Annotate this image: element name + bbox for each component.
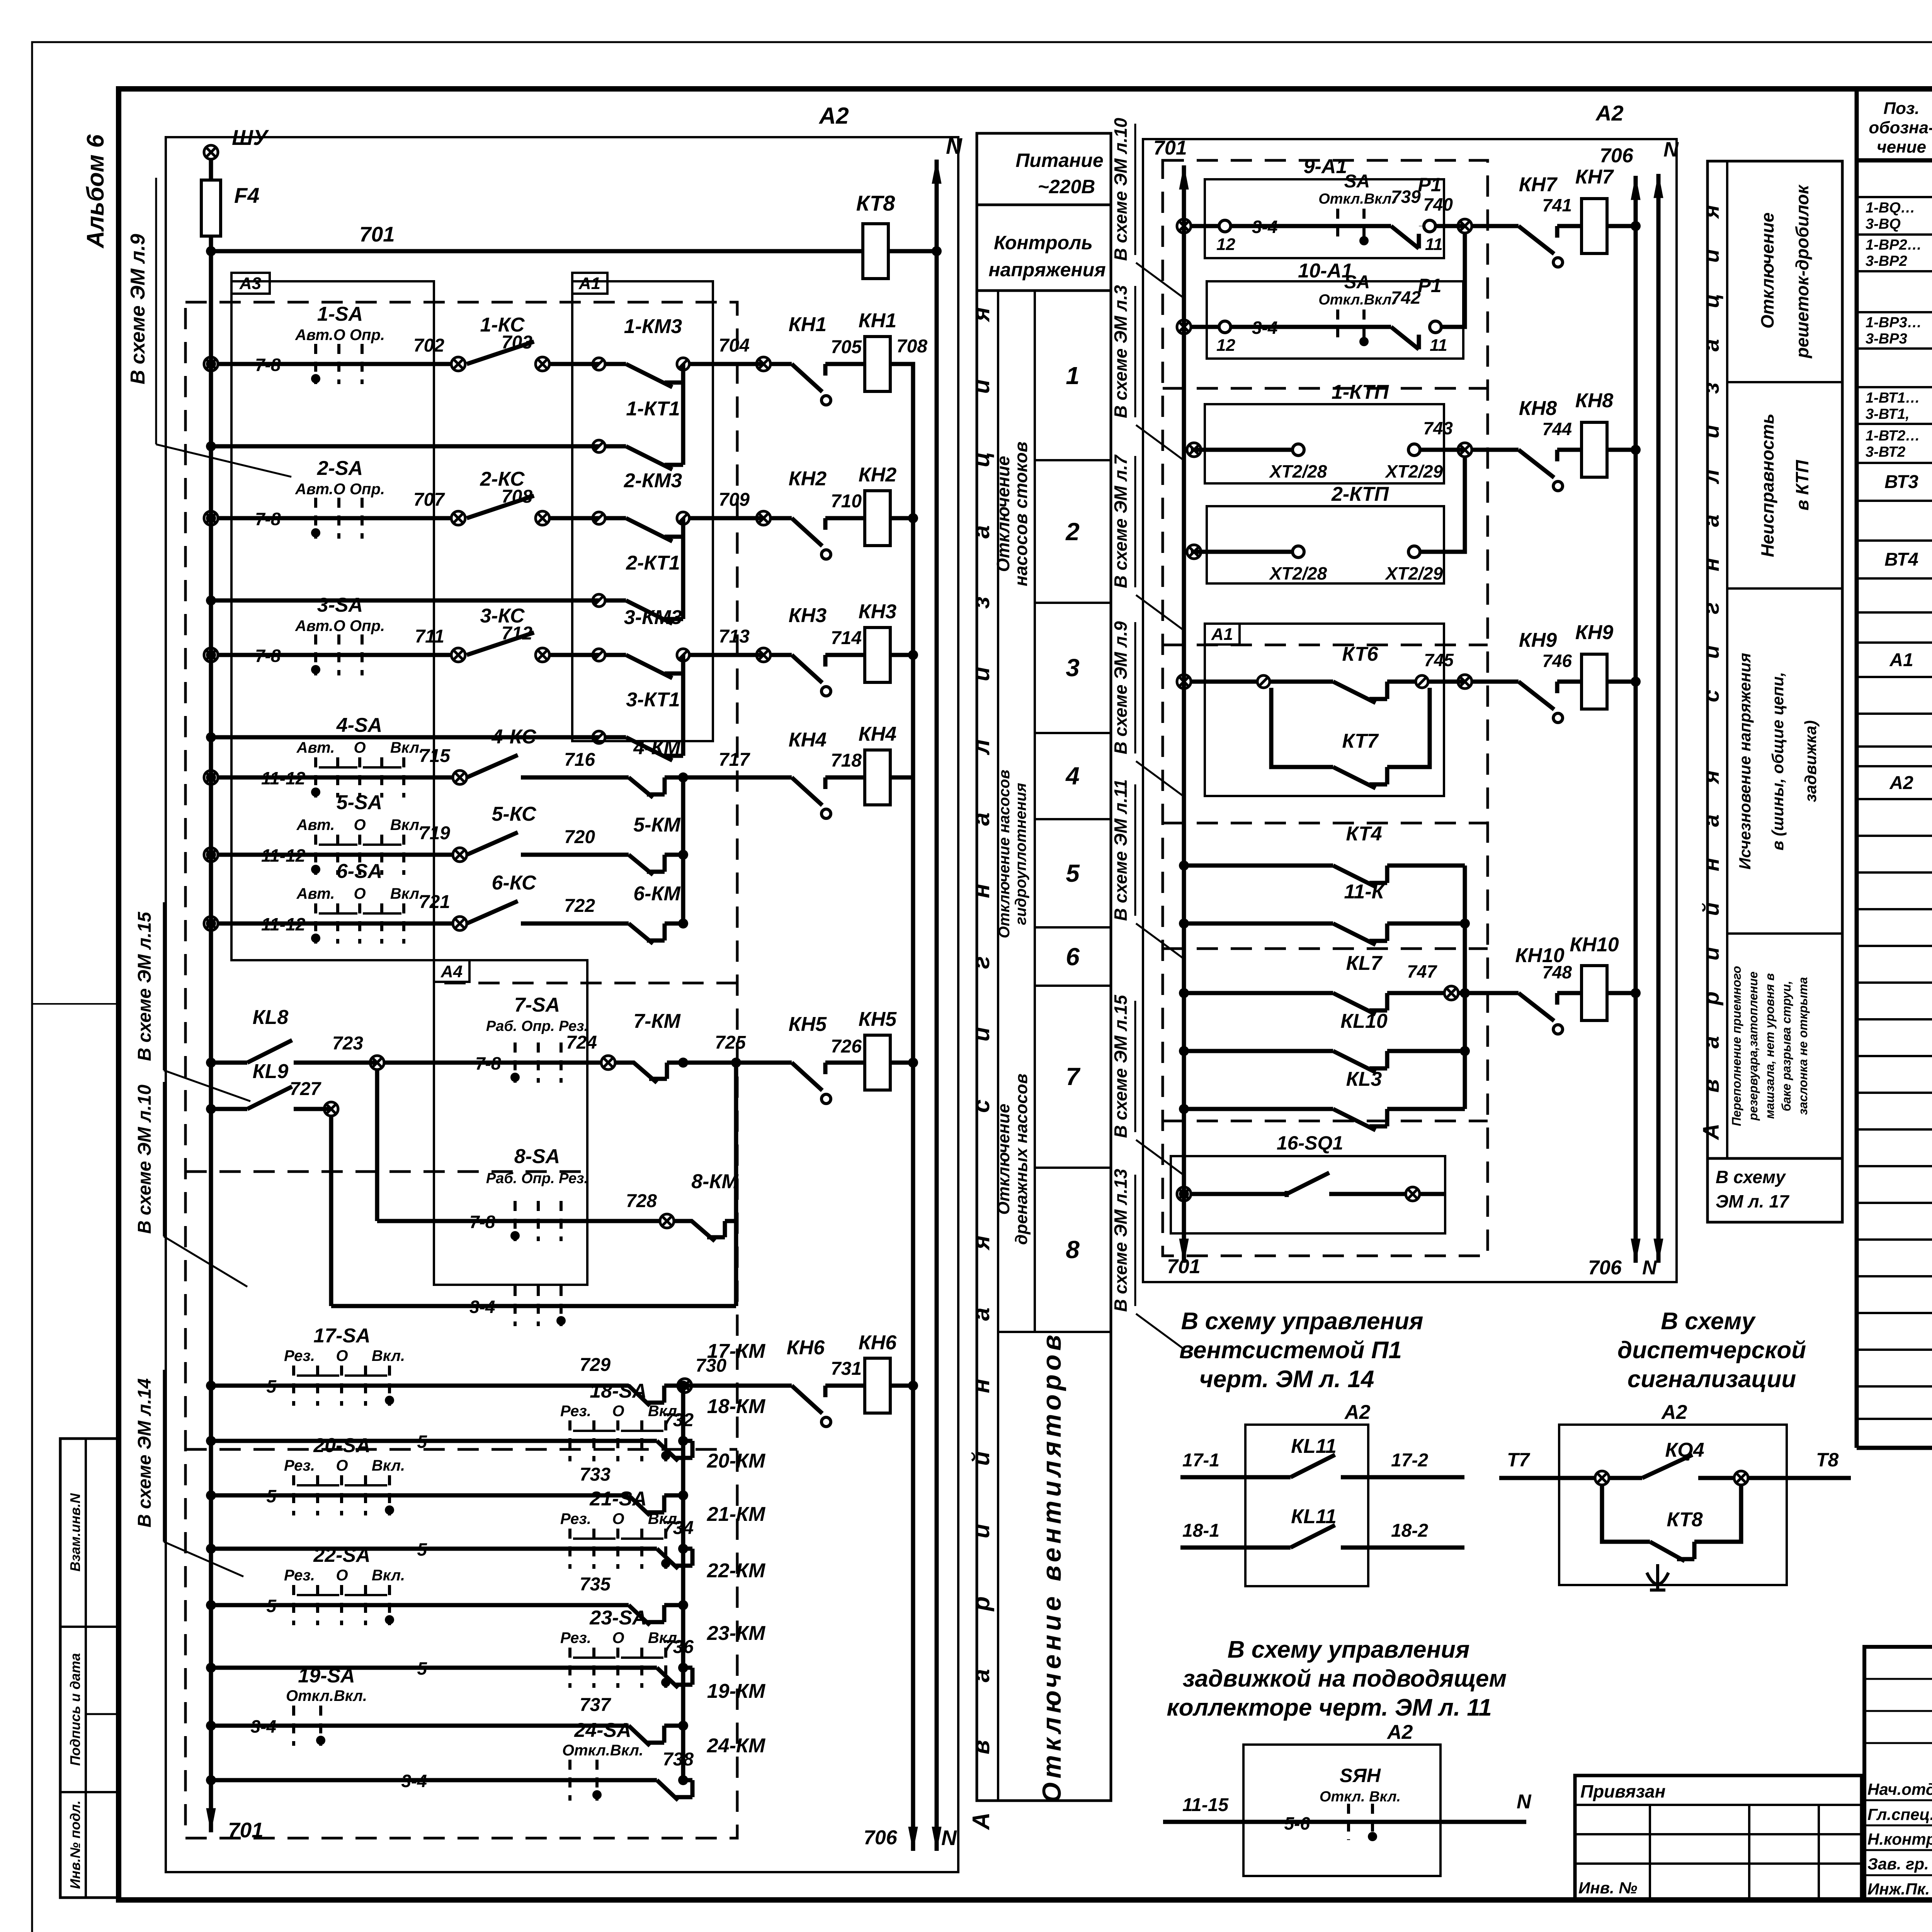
- svg-text:Отключение: Отключение: [994, 1104, 1013, 1214]
- node circle-slash left: [593, 358, 605, 370]
- svg-text:725: 725: [715, 1032, 746, 1053]
- svg-text:КН5: КН5: [789, 1013, 827, 1036]
- svg-text:В схеме ЭМ л.13: В схеме ЭМ л.13: [1111, 1169, 1131, 1312]
- terminal XT2/29 row2: [1408, 546, 1420, 558]
- svg-text:КН6: КН6: [859, 1332, 897, 1354]
- node circle-slash KT1: [593, 594, 605, 607]
- wire row 3 segment 1: [218, 653, 451, 657]
- link 8-KM up to KH5 row: [725, 1219, 736, 1223]
- wire row 5 segment 1: [218, 853, 453, 857]
- svg-text:5-6: 5-6: [1284, 1813, 1310, 1833]
- node T7 side: [1595, 1471, 1609, 1485]
- svg-text:2-SA: 2-SA: [317, 457, 363, 480]
- row KL8: junction on bus: [206, 1058, 216, 1068]
- svg-text:4-SA: 4-SA: [336, 714, 382, 736]
- wire 2-KTP up to 743: [1420, 456, 1465, 552]
- svg-text:745: 745: [1424, 650, 1454, 670]
- svg-text:23-SA: 23-SA: [589, 1607, 646, 1629]
- svg-text:743: 743: [1423, 418, 1453, 438]
- svg-text:3-КТ1: 3-КТ1: [626, 689, 680, 711]
- svg-text:Н.контр.: Н.контр.: [1867, 1830, 1932, 1848]
- wire row7 to KH5: [683, 1061, 792, 1065]
- wire relay KH6 to 706: [890, 1384, 913, 1388]
- parallel branch 2-KT1 wire: [206, 595, 216, 605]
- wire 701 horizontal top: [211, 249, 863, 253]
- svg-text:КН5: КН5: [859, 1008, 897, 1031]
- dashed cabinet A2 enclosure: [185, 302, 737, 1838]
- svg-text:724: 724: [566, 1032, 597, 1053]
- svg-text:КН8: КН8: [1575, 389, 1614, 412]
- svg-text:В схему управления: В схему управления: [1181, 1308, 1423, 1335]
- svg-text:734: 734: [663, 1518, 694, 1538]
- svg-text:Рез.: Рез.: [560, 1510, 591, 1527]
- svg-text:КН3: КН3: [789, 604, 827, 627]
- svg-text:706: 706: [1600, 145, 1634, 167]
- wire row 18: [211, 1439, 657, 1443]
- left stamp column box: [60, 1439, 117, 1898]
- svg-text:744: 744: [1542, 419, 1572, 439]
- svg-text:КН10: КН10: [1570, 934, 1619, 956]
- svg-text:гидроуплотнения: гидроуплотнения: [1012, 783, 1029, 925]
- svg-text:Авт.: Авт.: [296, 816, 335, 833]
- svg-text:резервуара,затопление: резервуара,затопление: [1746, 971, 1760, 1121]
- row 10-A1: node on bus: [1177, 320, 1191, 334]
- svg-text:23-КМ: 23-КМ: [707, 1622, 766, 1645]
- svg-text:В схеме ЭМ л.15: В схеме ЭМ л.15: [1111, 995, 1131, 1138]
- node on SQ1 row right: [1406, 1187, 1420, 1201]
- svg-text:Вкл.: Вкл.: [372, 1567, 405, 1584]
- parts table outer left edge: [1855, 89, 1859, 1448]
- svg-text:703: 703: [502, 332, 532, 353]
- wire 3-4 to link column: [331, 1304, 736, 1308]
- svg-text:5: 5: [266, 1596, 277, 1616]
- wire KH7 to 706: [1607, 224, 1636, 228]
- box V skhemu EM l.17: [1708, 1158, 1842, 1222]
- svg-text:Р1: Р1: [1418, 275, 1441, 296]
- svg-text:ВТ3: ВТ3: [1884, 472, 1918, 492]
- wire row 19: [211, 1724, 629, 1728]
- row KT4: [1179, 861, 1189, 871]
- svg-text:КТ8: КТ8: [856, 191, 895, 215]
- svg-text:Откл.Вкл.: Откл.Вкл.: [562, 1742, 643, 1759]
- svg-text:719: 719: [419, 823, 450, 844]
- svg-text:КН9: КН9: [1575, 621, 1614, 644]
- svg-text:Откл. Вкл.: Откл. Вкл.: [1320, 1789, 1401, 1805]
- terminal XT2/29: [1408, 444, 1420, 456]
- node on SQ1 row left: [1177, 1187, 1191, 1201]
- row 4 wire to relay KH4: [683, 776, 792, 780]
- svg-text:746: 746: [1542, 651, 1572, 671]
- svg-text:насосов стоков: насосов стоков: [1011, 442, 1031, 586]
- svg-text:Откл.Вкл.: Откл.Вкл.: [1318, 191, 1396, 207]
- svg-text:Инв. №: Инв. №: [1578, 1879, 1637, 1897]
- leader line: [1136, 425, 1183, 460]
- terminal 12: [1219, 220, 1231, 232]
- svg-text:КН7: КН7: [1575, 166, 1614, 188]
- collector column rows 17-24: [681, 1386, 685, 1780]
- wire 11-15: [1163, 1820, 1391, 1824]
- node SHU lamp: [204, 145, 218, 159]
- relay KH1 coil: [865, 337, 890, 391]
- svg-text:О: О: [336, 1457, 348, 1474]
- svg-text:Авт.: Авт.: [296, 885, 335, 902]
- row KL10: [1179, 1046, 1189, 1056]
- svg-text:8-SA: 8-SA: [514, 1145, 560, 1168]
- svg-text:КТ7: КТ7: [1342, 730, 1379, 752]
- node circle-slash KT6 left: [1257, 675, 1270, 688]
- wire row 2 segment 1: [218, 516, 451, 520]
- relay KH9 coil: [1582, 654, 1607, 709]
- svg-text:Подпись и дата: Подпись и дата: [67, 1653, 83, 1766]
- svg-text:О: О: [354, 885, 366, 902]
- svg-text:24-КМ: 24-КМ: [707, 1735, 766, 1757]
- svg-text:5: 5: [417, 1539, 427, 1560]
- svg-text:В схеме ЭМ л.11: В схеме ЭМ л.11: [1111, 779, 1131, 921]
- svg-text:5: 5: [266, 1376, 277, 1396]
- wire 722: [521, 922, 629, 926]
- svg-text:КН1: КН1: [859, 310, 896, 332]
- time-delay symbol KT8: [1647, 1564, 1668, 1590]
- svg-text:742: 742: [1391, 287, 1421, 308]
- wire SQ1 right up: [1419, 1192, 1445, 1196]
- svg-text:В схеме ЭМ л.15: В схеме ЭМ л.15: [134, 912, 155, 1061]
- svg-text:КL9: КL9: [253, 1060, 289, 1083]
- svg-text:N: N: [1517, 1791, 1532, 1813]
- svg-text:22-КМ: 22-КМ: [707, 1560, 766, 1582]
- svg-text:в (шины, общие цепи,: в (шины, общие цепи,: [1769, 672, 1787, 850]
- svg-text:1-ВТ1…: 1-ВТ1…: [1866, 390, 1920, 406]
- svg-text:733: 733: [580, 1464, 611, 1485]
- svg-text:Поз.: Поз.: [1883, 99, 1919, 118]
- svg-text:КL3: КL3: [1346, 1068, 1382, 1090]
- svg-text:Откл.Вкл.: Откл.Вкл.: [286, 1687, 367, 1704]
- svg-text:Отключение: Отключение: [993, 456, 1013, 572]
- svg-text:~220В: ~220В: [1038, 176, 1095, 197]
- svg-text:задвижкой на подводящем: задвижкой на подводящем: [1183, 1665, 1507, 1692]
- svg-text:черт. ЭМ л. 14: черт. ЭМ л. 14: [1199, 1366, 1374, 1393]
- svg-text:А2: А2: [1889, 773, 1913, 793]
- svg-text:3-SA: 3-SA: [317, 594, 363, 616]
- svg-text:7: 7: [1066, 1063, 1081, 1090]
- svg-text:Альбом 6: Альбом 6: [82, 134, 109, 249]
- svg-text:5-SA: 5-SA: [337, 791, 382, 814]
- junction collector row 19: [678, 1721, 688, 1731]
- leader line: [1136, 263, 1183, 298]
- cell Pitanie 220V: [977, 204, 1111, 206]
- svg-text:2-КТП: 2-КТП: [1331, 483, 1389, 505]
- svg-text:711: 711: [415, 626, 444, 647]
- svg-text:ЭМ л. 17: ЭМ л. 17: [1716, 1191, 1790, 1211]
- svg-text:706: 706: [1588, 1257, 1622, 1279]
- svg-text:коллекторе черт. ЭМ л. 11: коллекторе черт. ЭМ л. 11: [1167, 1694, 1492, 1721]
- svg-text:18-2: 18-2: [1391, 1520, 1428, 1541]
- svg-text:В схему управления: В схему управления: [1228, 1636, 1470, 1663]
- row KL3: [1179, 1104, 1189, 1114]
- svg-text:Рез.: Рез.: [284, 1567, 315, 1584]
- wire out of 9-A1 to node 740: [1435, 224, 1465, 228]
- svg-text:747: 747: [1407, 961, 1437, 981]
- wire XT2/29 out to 743: [1420, 448, 1465, 452]
- svg-text:1-КТ1: 1-КТ1: [626, 398, 680, 420]
- svg-text:Отключение насосов: Отключение насосов: [996, 770, 1013, 938]
- relay KH6 coil: [865, 1358, 890, 1413]
- bus N vertical right of left block: [935, 160, 939, 1851]
- svg-text:SЯН: SЯН: [1340, 1765, 1381, 1786]
- fold mark left margin: [32, 1003, 119, 1005]
- contact SQ1 limit switch: [1287, 1173, 1329, 1197]
- svg-text:диспетчерской: диспетчерской: [1617, 1337, 1806, 1364]
- svg-text:КН1: КН1: [789, 313, 827, 336]
- svg-text:11: 11: [1430, 336, 1447, 355]
- svg-text:718: 718: [831, 750, 862, 771]
- svg-text:F4: F4: [234, 183, 259, 207]
- svg-text:3-4: 3-4: [251, 1716, 276, 1736]
- svg-text:Рез.: Рез.: [284, 1457, 315, 1474]
- junction on collector column: [678, 918, 688, 929]
- wire relay KH4 to 706: [890, 776, 913, 780]
- svg-text:17-SA: 17-SA: [313, 1325, 370, 1347]
- wire KH10 to 706: [1607, 991, 1636, 995]
- svg-text:вентсистемой П1: вентсистемой П1: [1179, 1337, 1402, 1364]
- wire to XT2/28 row2: [1191, 550, 1293, 554]
- svg-text:Вкл.: Вкл.: [390, 739, 423, 756]
- vertical link 723 to 7-8 row of 8-SA: [375, 1069, 379, 1221]
- svg-text:11-К: 11-К: [1344, 881, 1385, 903]
- wire T8: [1747, 1476, 1851, 1480]
- svg-text:Привязан: Привязан: [1580, 1781, 1665, 1801]
- svg-text:КН8: КН8: [1519, 397, 1557, 420]
- junction collector row 20: [678, 1490, 688, 1500]
- svg-text:N: N: [1642, 1257, 1657, 1279]
- svg-text:715: 715: [419, 746, 451, 766]
- bus 706 middle vertical: [1634, 176, 1638, 1263]
- svg-text:Раб. Опр. Рез.: Раб. Опр. Рез.: [486, 1170, 588, 1187]
- terminal 11: [1424, 220, 1435, 232]
- svg-text:1-SA: 1-SA: [317, 303, 363, 325]
- section divider 3: [1727, 932, 1842, 935]
- bus 706 vertical collector: [890, 364, 913, 1851]
- right legend column box: [1708, 161, 1842, 1158]
- svg-text:5: 5: [417, 1432, 427, 1452]
- svg-text:ШУ: ШУ: [232, 125, 269, 150]
- svg-text:О: О: [612, 1629, 624, 1646]
- wire to KT6: [1191, 680, 1257, 684]
- svg-text:710: 710: [831, 491, 862, 512]
- svg-text:701: 701: [359, 222, 395, 246]
- svg-text:Нач.отд: Нач.отд: [1867, 1780, 1932, 1798]
- svg-text:726: 726: [831, 1036, 862, 1057]
- wire into box 9-A1: [1191, 224, 1219, 228]
- svg-text:Взам.инв.N: Взам.инв.N: [67, 1493, 83, 1572]
- terminal 11 row 10-A1: [1430, 321, 1441, 333]
- svg-text:3-ВТ1,: 3-ВТ1,: [1866, 406, 1910, 422]
- svg-text:КН2: КН2: [789, 468, 827, 490]
- node 728: [377, 1219, 660, 1223]
- svg-text:716: 716: [564, 750, 595, 770]
- wire row 2 segment 3: [689, 516, 764, 520]
- svg-text:Отключение вентиляторов: Отключение вентиляторов: [1037, 1331, 1066, 1803]
- leader line: [1136, 1314, 1183, 1349]
- svg-text:11: 11: [1425, 235, 1443, 254]
- svg-text:5: 5: [1066, 859, 1080, 887]
- wire 18-1: [1180, 1546, 1291, 1550]
- svg-text:9-А1: 9-А1: [1304, 155, 1347, 178]
- wire 17-1: [1180, 1475, 1291, 1480]
- svg-text:А2: А2: [1595, 101, 1624, 125]
- svg-text:1-КТП: 1-КТП: [1332, 381, 1389, 403]
- svg-text:ХТ2/28: ХТ2/28: [1269, 461, 1327, 481]
- svg-text:N: N: [941, 1826, 957, 1850]
- svg-text:А2: А2: [1661, 1401, 1687, 1423]
- relay KH3 coil: [865, 628, 890, 682]
- wire relay KH5 to 706: [890, 1061, 913, 1065]
- row 3: node on bus: [204, 648, 218, 662]
- relay KH5 coil: [865, 1035, 890, 1090]
- wire row 20: [211, 1493, 629, 1498]
- svg-text:704: 704: [719, 335, 750, 356]
- svg-text:6-КМ: 6-КМ: [633, 883, 681, 905]
- svg-text:708: 708: [896, 336, 927, 357]
- row 21: junction on bus: [206, 1544, 216, 1554]
- svg-text:КН9: КН9: [1519, 629, 1557, 651]
- node circle-slash right: [677, 649, 689, 661]
- box A3 outline: [231, 281, 434, 960]
- svg-text:ХТ2/29: ХТ2/29: [1384, 461, 1443, 481]
- svg-text:17-2: 17-2: [1391, 1450, 1428, 1471]
- svg-text:5: 5: [417, 1658, 427, 1679]
- svg-text:N: N: [1663, 138, 1679, 161]
- leader line: [1136, 923, 1183, 958]
- svg-text:727: 727: [290, 1079, 321, 1099]
- wire KT1 branch up to node: [681, 370, 685, 446]
- svg-text:721: 721: [419, 892, 450, 912]
- svg-text:18-SA: 18-SA: [590, 1380, 646, 1402]
- svg-text:Авт.О Опр.: Авт.О Опр.: [295, 327, 385, 344]
- svg-text:КL8: КL8: [253, 1006, 289, 1029]
- svg-text:Т8: Т8: [1816, 1449, 1839, 1471]
- svg-text:заслонка не открыта: заслонка не открыта: [1796, 977, 1810, 1115]
- svg-text:обозна-: обозна-: [1869, 118, 1932, 137]
- svg-text:707: 707: [413, 490, 445, 510]
- svg-text:7-8: 7-8: [475, 1053, 501, 1073]
- wire row 23: [211, 1666, 657, 1670]
- wire 720: [521, 853, 629, 857]
- svg-text:2-КТ1: 2-КТ1: [626, 552, 680, 574]
- svg-text:В схеме ЭМ л.9: В схеме ЭМ л.9: [127, 234, 149, 384]
- svg-text:Рез.: Рез.: [560, 1403, 591, 1420]
- wire T7: [1499, 1476, 1596, 1480]
- relay KH2 coil: [865, 491, 890, 546]
- svg-text:1: 1: [1066, 362, 1080, 389]
- parallel branch 3-KT1 wire: [206, 732, 216, 742]
- node circle-slash KT1: [593, 440, 605, 452]
- dashed enclosure middle circuit: [1163, 160, 1488, 1256]
- svg-text:Переполнение приемного: Переполнение приемного: [1730, 966, 1743, 1126]
- svg-text:731: 731: [831, 1359, 862, 1379]
- node T8 side: [1734, 1471, 1748, 1485]
- section divider 2: [1727, 587, 1842, 590]
- wire row 24: [211, 1778, 657, 1782]
- svg-text:11-12: 11-12: [261, 768, 306, 788]
- terminal XT2/28 row2: [1293, 546, 1304, 558]
- wire row 6 segment 1: [218, 922, 453, 926]
- wire KT6 out to 745: [1428, 680, 1465, 684]
- svg-text:в КТП: в КТП: [1792, 460, 1812, 511]
- wire 17-2: [1368, 1475, 1464, 1480]
- svg-text:КТ4: КТ4: [1346, 823, 1382, 845]
- svg-text:736: 736: [663, 1637, 694, 1657]
- svg-text:8-КМ: 8-КМ: [691, 1170, 739, 1193]
- box A1 outline: [572, 281, 713, 741]
- svg-text:В схеме ЭМ л.10: В схеме ЭМ л.10: [134, 1085, 155, 1234]
- wire 748: [1557, 991, 1582, 995]
- svg-text:Авт.О Опр.: Авт.О Опр.: [295, 481, 385, 498]
- wire relay KH1 to 706 bus: [890, 362, 913, 366]
- row 2-KTP: node on bus: [1187, 545, 1201, 559]
- cell Kontrol napryazheniya: [977, 289, 1111, 292]
- relay KH8 coil: [1582, 422, 1607, 477]
- svg-text:2: 2: [1065, 518, 1080, 546]
- svg-text:7-SA: 7-SA: [514, 994, 560, 1016]
- svg-text:7-8: 7-8: [255, 509, 281, 529]
- node circle-slash left: [593, 649, 605, 661]
- row 20: junction on bus: [206, 1490, 216, 1500]
- svg-text:18-1: 18-1: [1182, 1520, 1219, 1541]
- svg-text:21-SA: 21-SA: [589, 1488, 646, 1510]
- leader line: [1136, 595, 1183, 630]
- svg-text:7-8: 7-8: [255, 646, 281, 666]
- svg-text:5-КС: 5-КС: [492, 803, 537, 825]
- wire row 17: [211, 1384, 629, 1388]
- svg-text:О: О: [612, 1510, 624, 1527]
- node circle-slash right: [677, 512, 689, 524]
- svg-text:730: 730: [696, 1355, 726, 1376]
- svg-text:задвижка): задвижка): [1801, 720, 1820, 802]
- wire row 3 segment 3: [689, 653, 764, 657]
- junction collector row 23: [678, 1663, 688, 1673]
- signature table: [1864, 1647, 1932, 1900]
- wire 740 to KH7 contact: [1472, 224, 1519, 228]
- bus 701 vertical: [209, 159, 213, 1832]
- svg-text:Инв.№ подл.: Инв.№ подл.: [67, 1800, 83, 1889]
- svg-text:КТ8: КТ8: [1667, 1509, 1702, 1531]
- svg-text:SА: SА: [1344, 272, 1370, 293]
- svg-text:КL11: КL11: [1291, 1505, 1337, 1528]
- svg-text:3-ВР2: 3-ВР2: [1866, 253, 1907, 269]
- link KT4 down: [1463, 866, 1467, 993]
- svg-text:20-SA: 20-SA: [313, 1434, 370, 1457]
- wire to N: [1391, 1820, 1526, 1824]
- wire row 22: [211, 1603, 629, 1607]
- svg-text:706: 706: [864, 1827, 898, 1849]
- leader line: [1136, 761, 1183, 796]
- svg-text:21-КМ: 21-КМ: [707, 1503, 766, 1526]
- terminal 12 row 10-A1: [1219, 321, 1231, 333]
- row 5: node on bus: [204, 848, 218, 862]
- svg-text:Авт.О Опр.: Авт.О Опр.: [295, 617, 385, 634]
- svg-text:В схему: В схему: [1716, 1167, 1786, 1187]
- svg-text:Вкл.: Вкл.: [372, 1457, 405, 1474]
- row 6: node on bus: [204, 917, 218, 930]
- svg-text:713: 713: [719, 626, 750, 647]
- svg-text:Вкл.: Вкл.: [390, 816, 423, 833]
- svg-text:Питание: Питание: [1015, 150, 1103, 171]
- svg-text:Т7: Т7: [1507, 1449, 1531, 1471]
- svg-text:732: 732: [663, 1410, 694, 1430]
- svg-text:В схеме ЭМ л.7: В схеме ЭМ л.7: [1111, 454, 1131, 588]
- svg-text:В схеме ЭМ л.14: В схеме ЭМ л.14: [134, 1378, 155, 1527]
- svg-text:702: 702: [413, 335, 444, 356]
